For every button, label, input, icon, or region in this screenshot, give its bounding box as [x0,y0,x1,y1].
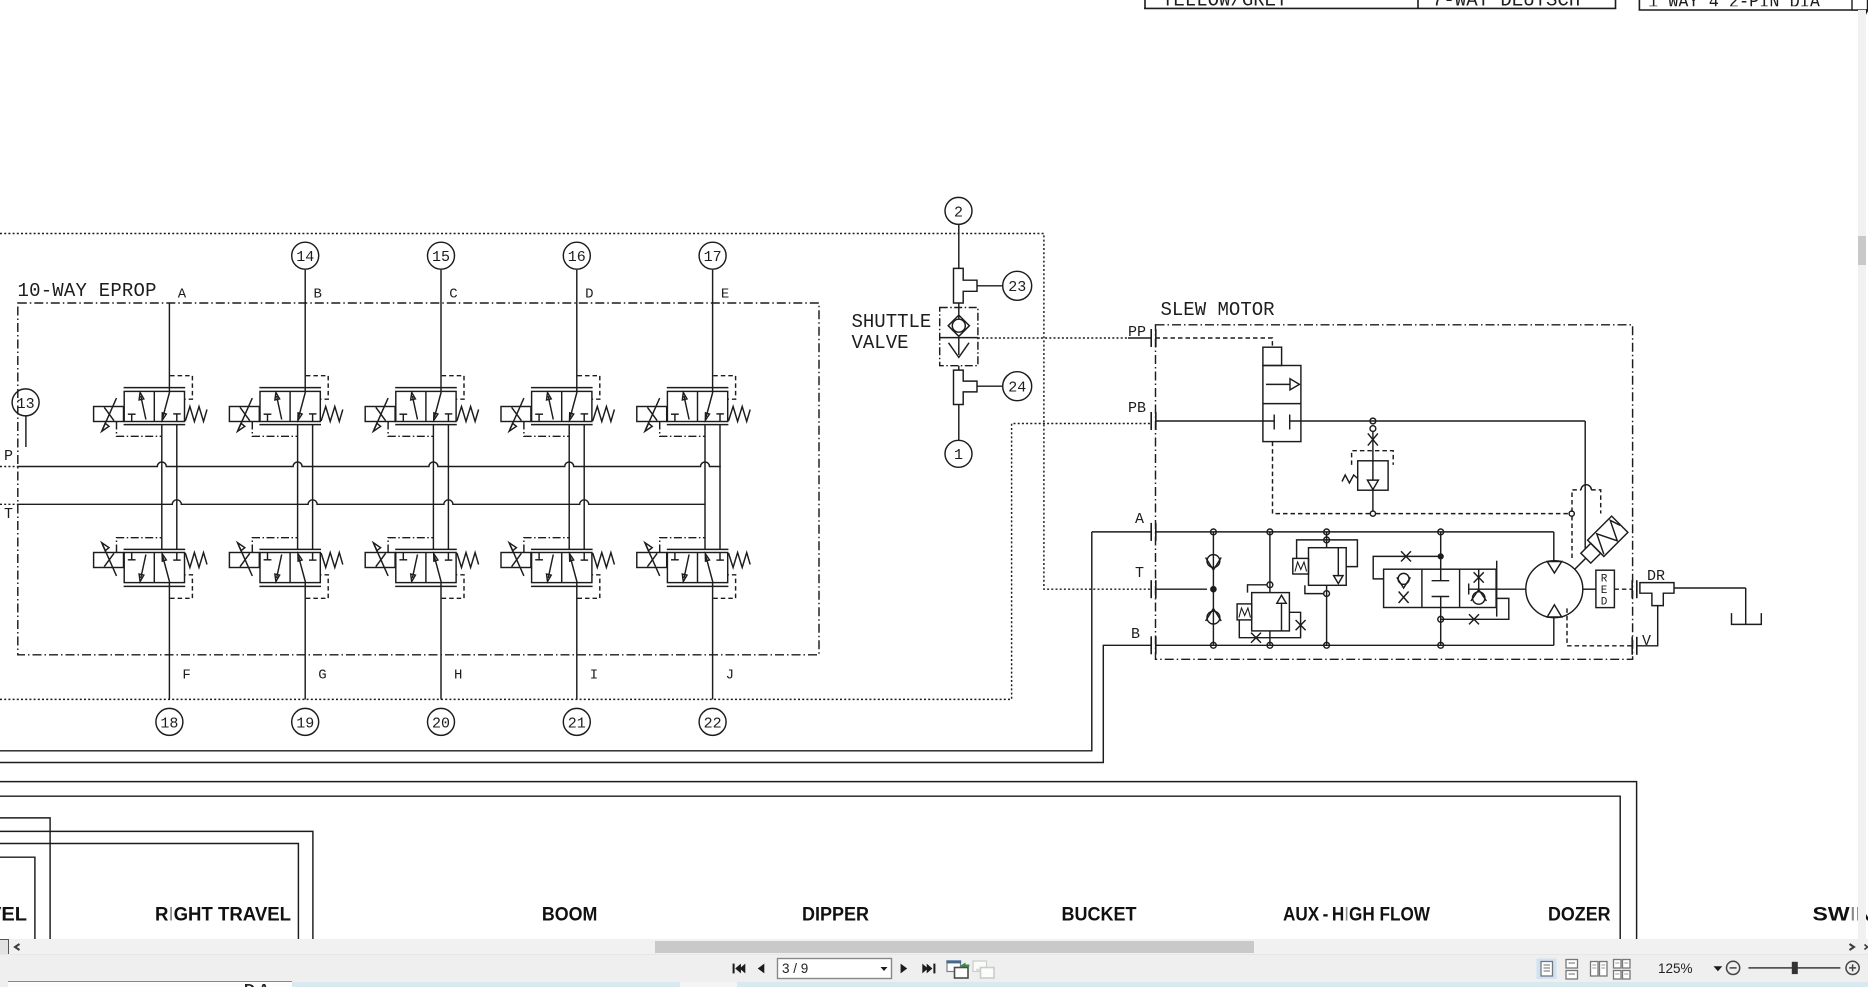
pilot relief valve dashed pilot box [1352,451,1394,465]
svg-text:RIGHT TRAVEL: RIGHT TRAVEL [155,905,291,926]
svg-text:VALVE: VALVE [852,332,909,354]
wire: port G line [304,583,306,700]
page number box [778,958,892,978]
wire: A return line [0,532,1092,751]
valve G (EPROP section 2 bottom) [229,538,342,599]
port PB [1150,412,1152,430]
10-WAY EPROP manifold enclosure [18,303,819,655]
wire: BS bottom pilot [1441,598,1509,619]
wire: T rail [18,500,705,505]
zoom slider [1748,966,1840,968]
valve A (EPROP section 1 top) [94,376,207,437]
section labels [0,905,1868,926]
svg-text:B: B [314,287,322,303]
svg-text:13: 13 [17,396,35,413]
last page button [922,963,928,973]
svg-text:17: 17 [704,249,722,266]
shuttle valve enclosure [940,308,978,366]
svg-text:T: T [1135,565,1144,582]
wire: PB supply [1156,420,1275,422]
node [940,337,978,339]
svg-text:18: 18 [160,715,178,732]
valve E (EPROP section 5 top) [637,376,750,437]
wire: PP pilot (dashed) [1156,338,1273,347]
wire: B gallery [1156,644,1554,646]
svg-text:T: T [4,506,13,523]
callout 16 [563,242,590,269]
port V [1631,637,1633,655]
port B [1150,636,1152,654]
restrictor [1368,433,1378,445]
svg-text:F: F [182,668,190,684]
wire: V port to tee [1638,606,1658,646]
wire: R2 pilots [1324,537,1330,543]
wire: port E line [712,270,714,392]
svg-text:H: H [454,668,462,684]
wire: A gallery [1156,531,1554,533]
callout 21 [563,708,590,735]
port A [1150,523,1152,541]
wire [958,303,960,319]
svg-text:10-WAY EPROP: 10-WAY EPROP [18,280,157,302]
slew motor enclosure [1156,325,1633,660]
wire [958,405,960,441]
svg-text:1: 1 [954,447,963,464]
valve I (EPROP section 4 bottom) [501,538,614,599]
wire: P rail [18,462,721,467]
callout 24 [1003,372,1032,401]
svg-text:BOOM: BOOM [542,905,598,926]
zoom in [1846,961,1859,974]
right cell: restrictor + check [1478,569,1480,592]
wire [958,366,960,370]
port T [1150,580,1152,598]
speed sensor RED [1596,570,1615,607]
continuous facing view [1614,959,1622,968]
svg-text:19: 19 [296,715,314,732]
callout 15 [428,242,455,269]
wire: case drain to V (dashed) [1567,608,1632,645]
wire: servo pilot dashed box [1572,490,1581,512]
prev page button [758,963,765,973]
overload relief R1 [1252,593,1290,631]
valve C (EPROP section 3 top) [365,376,478,437]
wire: T to motor [1468,584,1470,595]
svg-text:PP: PP [1128,324,1146,341]
node on PB line [1370,418,1376,424]
tee fitting at DR [1640,583,1674,606]
svg-text:16: 16 [568,249,586,266]
callout 2 [945,197,972,224]
wire [1372,431,1374,461]
wire: valve B/G work stubs [297,425,299,550]
wire: T gallery [1156,588,1208,590]
callout 17 [699,242,726,269]
svg-text:7-WAY DEUTSCH: 7-WAY DEUTSCH [1432,0,1580,12]
brake shuttle valve BS [1384,569,1497,607]
wire: BS center spool line [1440,532,1442,569]
svg-text:2: 2 [954,204,963,221]
svg-text:C: C [449,287,457,303]
valve J (EPROP section 5 bottom) [637,538,750,599]
wire [1269,532,1271,593]
svg-text:14: 14 [296,249,314,266]
left travel section frame [0,818,50,939]
wire: valve C/H work stubs [432,425,434,550]
port PP [1150,329,1152,347]
svg-text:DIPPER: DIPPER [802,905,869,926]
previous view icon [946,960,969,978]
wire: motor to RED [1583,588,1596,590]
vertical scrollbar [1858,10,1866,939]
svg-text:24: 24 [1008,380,1026,397]
svg-text:A: A [178,287,187,303]
wire: valve E/J work stubs [704,425,706,550]
svg-text:A: A [1135,511,1144,528]
svg-text:P: P [4,448,13,465]
svg-text:PB: PB [1128,400,1146,417]
toolbar [0,954,1868,983]
check valve CV1 [1207,555,1220,568]
svg-text:22: 22 [704,715,722,732]
pilot 2/2 valve U10 [1263,347,1282,365]
valve F (EPROP section 1 bottom) [94,538,207,599]
mouse cursor mark [1862,10,1868,21]
callout 23 [1003,271,1032,300]
facing view [1591,961,1599,976]
wire [977,285,1002,287]
wire: port J line [712,583,714,700]
connector table (clipped at top right) [1639,0,1868,10]
zoom out [1727,961,1740,974]
bottom strip (window behind) [0,982,1868,987]
wire: BS top pilot [1373,556,1441,579]
valve D (EPROP section 4 top) [501,376,614,437]
callout 22 [699,708,726,735]
wire: P line stub (dashed, left of manifold) [0,466,18,468]
wire [977,385,1002,387]
callout 19 [292,708,319,735]
continuous view [1566,959,1578,968]
wiring table (clipped at top) [1144,0,1616,8]
svg-text:J: J [726,668,734,684]
callout 14 [292,242,319,269]
horizontal scrollbar [0,939,1868,954]
wire: make-up check column [1212,532,1214,645]
shuttle ball check [952,319,965,332]
right travel section frame [0,831,313,939]
wire: R1 bottom pilot with restrictors [1239,612,1300,637]
first page button [733,963,735,973]
pilot relief valve RV1 [1358,461,1388,490]
junction [1211,587,1216,592]
relief spring [1342,475,1358,483]
callout 20 [428,708,455,735]
svg-text:AUX - HIGH FLOW: AUX - HIGH FLOW [1283,905,1430,926]
svg-text:I: I [590,668,598,684]
svg-text:V: V [1642,633,1651,650]
svg-text:D: D [585,287,593,303]
valve H (EPROP section 3 bottom) [365,538,478,599]
node [1370,511,1375,516]
tank symbol [1732,613,1762,624]
wire: port F line [168,583,170,700]
wire: port I line [576,583,578,700]
port DR [1631,580,1633,598]
check valve CV2 [1207,611,1220,624]
wire: port A line [168,303,170,391]
svg-text:23: 23 [1008,279,1026,296]
wire: B return line [0,645,1151,762]
wire: valve D/I work stubs [568,425,570,550]
svg-text:YELLOW/GREY: YELLOW/GREY [1162,0,1288,12]
svg-text:G: G [318,668,326,684]
left cell: check + restrictor [1398,573,1409,584]
svg-text:15: 15 [432,249,450,266]
next view icon (disabled) [973,961,994,978]
tee fitting 23 [954,268,978,303]
wire [958,224,960,268]
main control valve outer frame [0,782,1637,939]
wire: port D line [576,270,578,392]
wire: pilot line 2 (top dotted) [0,234,1151,590]
svg-text:VEL: VEL [0,905,27,926]
overload relief R2 [1309,548,1347,586]
svg-text:125%: 125% [1658,961,1693,976]
next page button [901,963,908,973]
wire: valve A/F work stubs [161,425,163,550]
wire: pilot to PP (dotted) [978,337,1128,339]
callout 18 [156,708,183,735]
svg-text:B: B [1131,626,1140,643]
wire [1372,490,1374,511]
slew hydraulic motor M [1526,561,1583,618]
svg-text:20: 20 [432,715,450,732]
wire: pilot line PB (bottom dotted) [0,424,1151,700]
wire: T line stub (dashed, left of manifold) [0,503,18,505]
wire: port C line [440,270,442,392]
svg-text:E: E [721,287,729,303]
svg-text:3 / 9: 3 / 9 [782,961,808,976]
svg-text:DOZER: DOZER [1548,905,1611,926]
wire [1674,587,1746,589]
swash servo solenoid [1566,516,1628,578]
svg-text:D: D [1601,597,1608,609]
svg-text:BUCKET: BUCKET [1062,905,1137,926]
wire: port H line [440,583,442,700]
wire: pilot drain (dashed) [1273,442,1370,514]
valve B (EPROP section 2 top) [229,376,342,437]
shuttle outlet arrow [958,338,960,355]
wire: port B line [304,270,306,392]
svg-text:21: 21 [568,715,586,732]
center cell: closed [1440,569,1442,581]
svg-text:R: R [1601,574,1608,586]
tee fitting 24 [954,370,978,404]
svg-text:E: E [1601,585,1608,597]
callout 13 [12,389,39,416]
svg-text:1 WAY 4 2-PIN DIA: 1 WAY 4 2-PIN DIA [1648,0,1821,13]
single page view (active) [1537,958,1557,979]
svg-text:SLEW MOTOR: SLEW MOTOR [1161,299,1275,321]
wire: RED to DR (dashed) [1614,588,1632,590]
svg-text:SHUTTLE: SHUTTLE [852,311,932,333]
wire: R1 top pilot [1248,585,1268,593]
callout 1 [945,440,972,467]
main control valve inner frame [0,796,1620,939]
